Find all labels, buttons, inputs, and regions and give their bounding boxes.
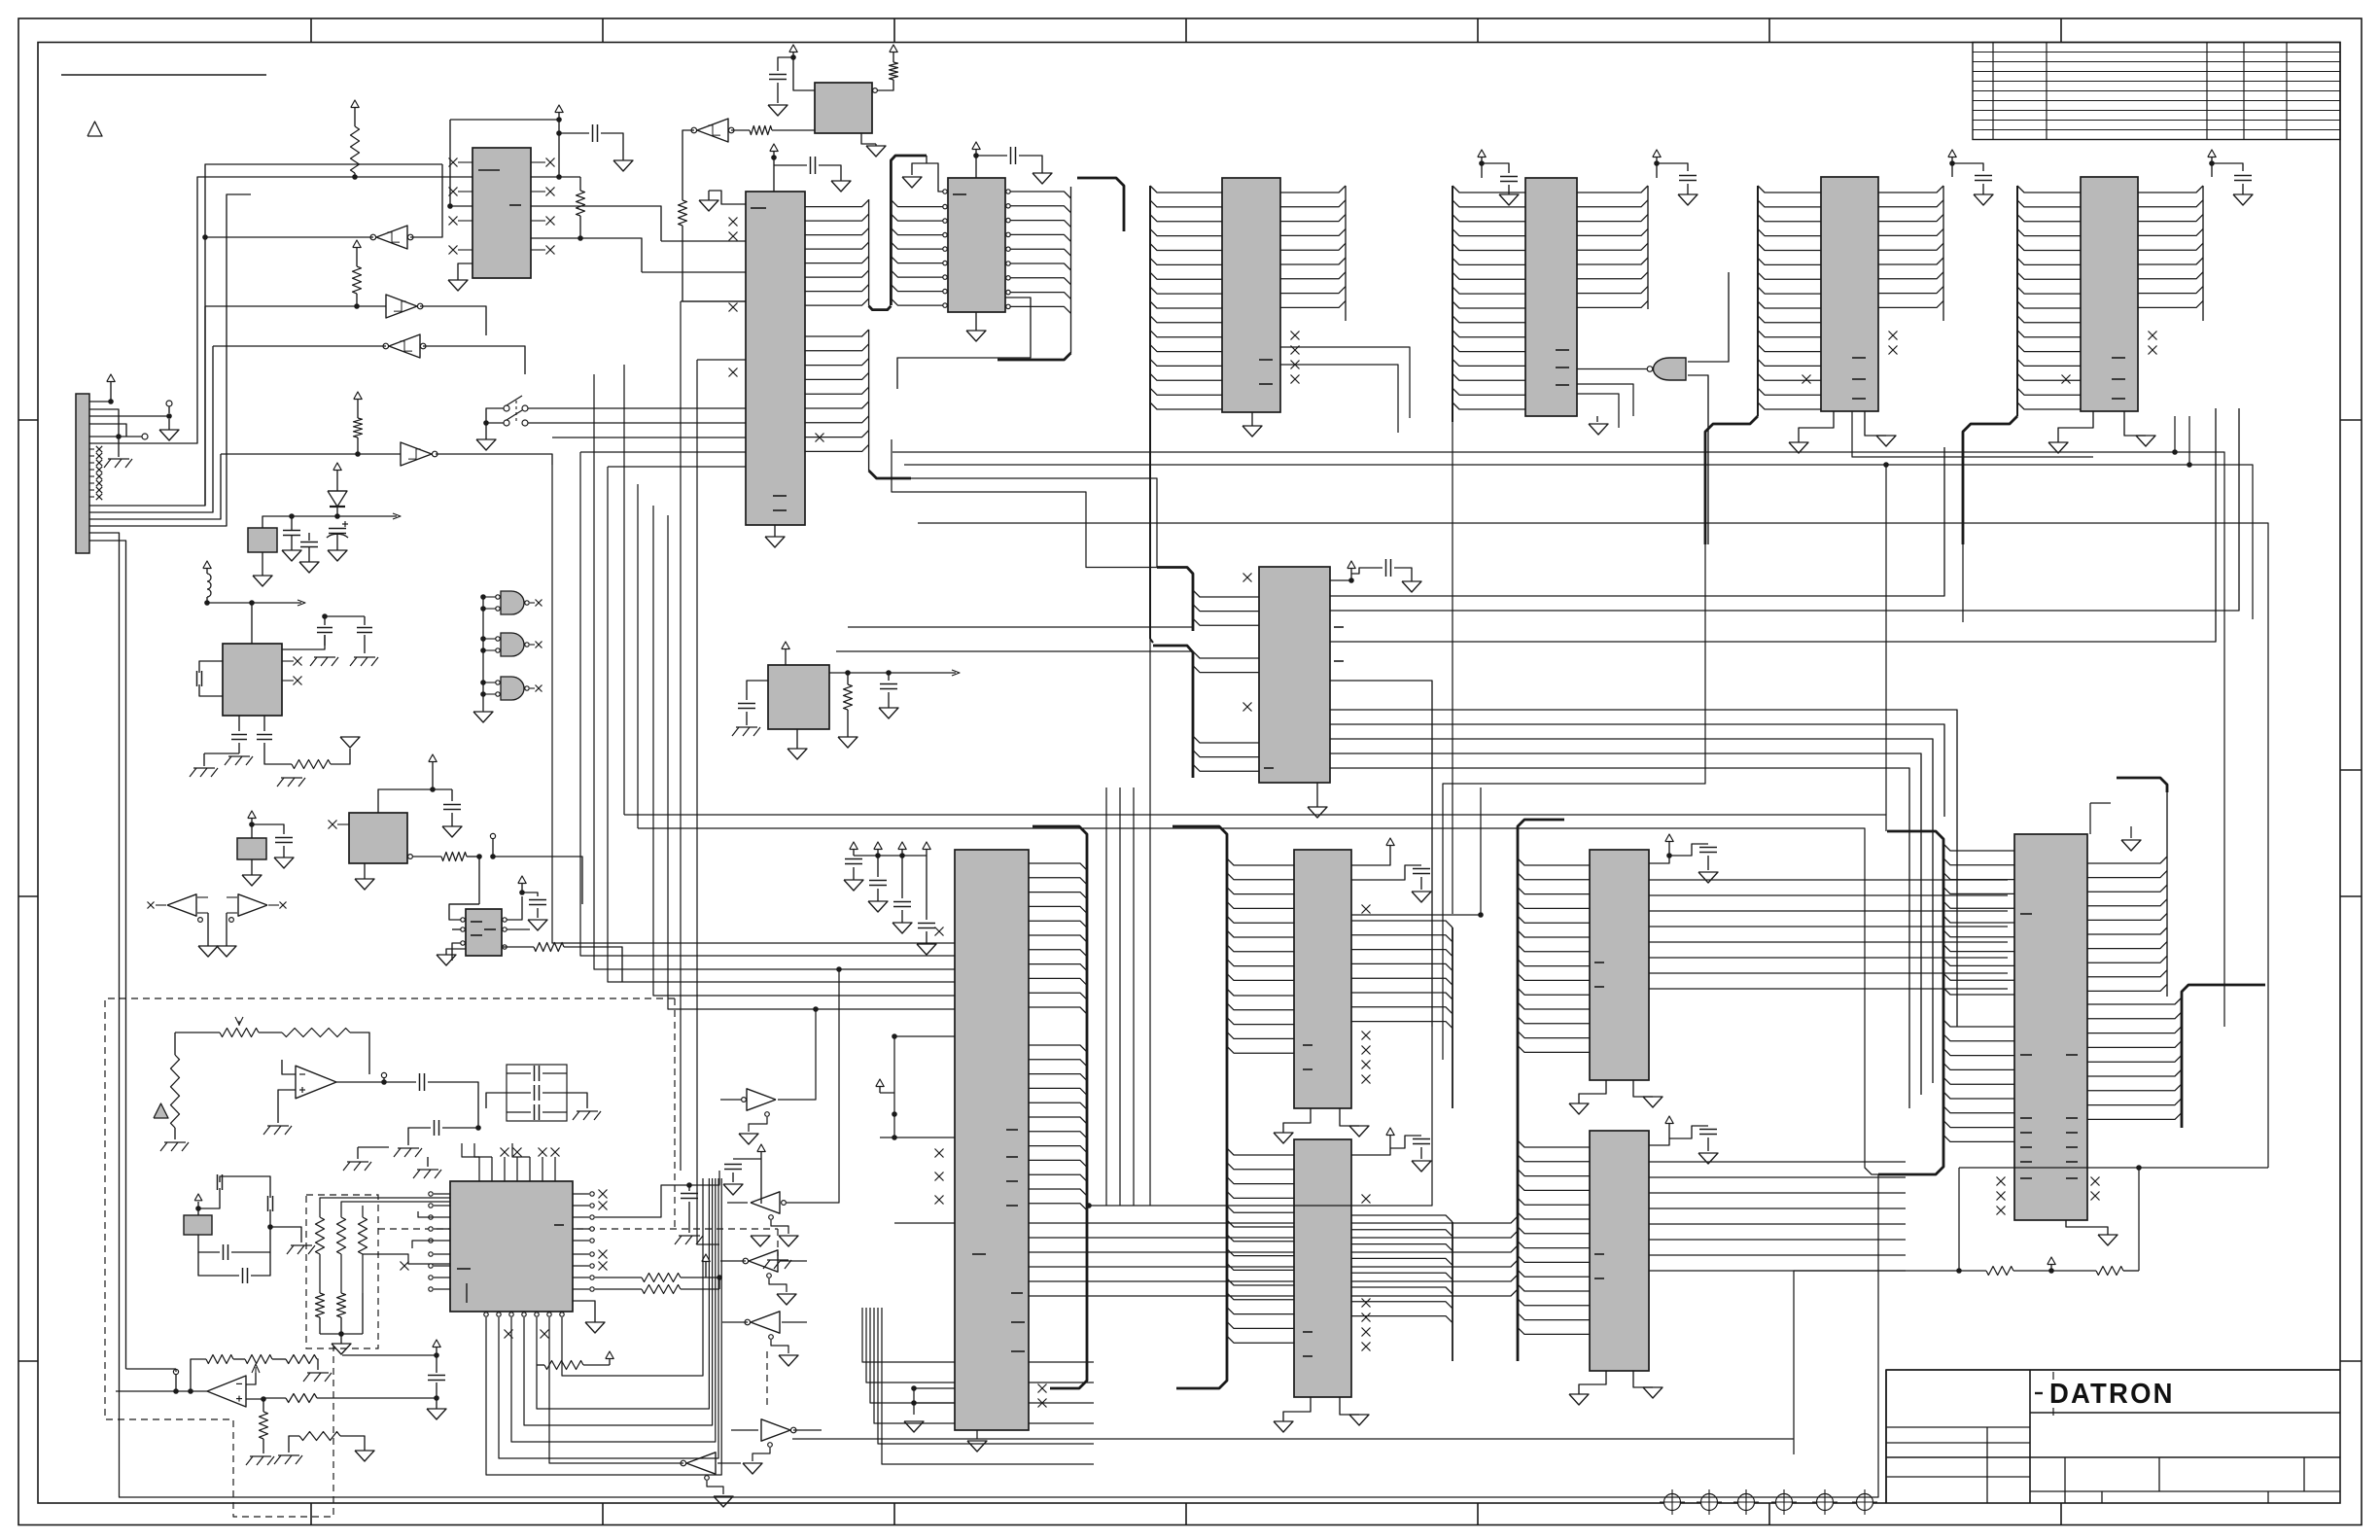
IC U24 <box>1294 1139 1351 1397</box>
A3 output arrow <box>829 672 956 674</box>
A5 output resistor R9 <box>408 855 413 859</box>
U4 right pin wire lower <box>531 238 642 272</box>
A3 gnd <box>796 729 798 749</box>
wires U4 to U8 <box>531 206 661 241</box>
A1 lower chassis <box>281 777 302 779</box>
resistor trio in dashed box <box>319 1206 321 1217</box>
U4 bottom-left ground <box>458 263 472 280</box>
U20 inputs <box>282 1060 296 1074</box>
U23 right fan to vertical <box>1351 921 1452 927</box>
wire U3b input <box>205 305 386 307</box>
J1 long wire to vertical bus 203 <box>89 177 472 443</box>
caps cluster top of hybrid <box>507 1065 567 1121</box>
resistor R4 <box>579 177 581 191</box>
U23 right wires <box>1351 852 1390 865</box>
U24 bottom gnd <box>1283 1397 1311 1421</box>
thin continuation of U11 descender <box>1962 544 1964 622</box>
chassis grounds above hybrid <box>347 1161 368 1163</box>
U13 upper-left bold bus entry <box>1157 568 1193 632</box>
capacitor C11 <box>283 530 300 532</box>
U14 power cap <box>1656 163 1658 178</box>
J1 pin wire 4 <box>89 424 126 437</box>
cap C30 <box>442 1127 478 1129</box>
wire U3d output <box>436 454 552 465</box>
U23 nc right <box>1362 1032 1371 1040</box>
dashed line through hybrid <box>378 1228 778 1230</box>
IC U7 <box>948 178 1005 312</box>
U8 right fan lower <box>805 330 869 336</box>
A3 cap C14 <box>888 673 890 681</box>
A1 bottom caps <box>238 716 240 731</box>
U25 dashes <box>1594 962 1604 963</box>
svg-text:DATRON: DATRON <box>2049 1379 2175 1410</box>
U11 power cap <box>2211 163 2213 177</box>
wire U3c output <box>213 345 386 347</box>
U21 lower resistor to chassis <box>262 1399 264 1412</box>
U7 ground below <box>975 312 977 331</box>
J1 pin wire 2 <box>89 409 119 437</box>
U10 power cap <box>1951 163 1953 177</box>
U10 bottom gnd wires <box>1799 411 1834 442</box>
long lower horizontals <box>624 815 1886 831</box>
U27 right lower bold spine <box>2182 985 2265 1128</box>
U26 right wires <box>1649 1161 1906 1163</box>
delta revision mark <box>87 122 102 136</box>
zener diode VR1 <box>333 463 341 471</box>
wire U3b output <box>420 306 486 335</box>
buffer column U30a <box>747 1089 776 1110</box>
U22 bottom left wires <box>914 1388 955 1403</box>
module A5 <box>349 813 407 863</box>
module A3 regulator <box>768 665 829 729</box>
electrolytic C12 <box>329 528 346 530</box>
U13 right wires turning down rails <box>1330 710 1957 1027</box>
A6 input wires <box>449 904 479 920</box>
U26 dashes <box>1594 1253 1604 1255</box>
U6 left power wiring <box>793 57 815 90</box>
A6 right wires <box>502 896 522 920</box>
U21 minus input to wiper <box>246 1373 256 1384</box>
IC U26 <box>1590 1131 1649 1371</box>
J1 pin to test point <box>89 415 169 417</box>
vertical bus wires center-left staircase to U22 <box>552 465 955 943</box>
IC U14 <box>1525 178 1577 416</box>
U5a output wire to resistor R10 <box>682 130 694 200</box>
U22 right fan mid <box>1029 1045 1087 1052</box>
inverter U3c <box>389 334 420 358</box>
U9 right fan <box>1280 186 1346 192</box>
U24 power cap <box>1351 1141 1390 1155</box>
U22 nc left <box>935 927 944 936</box>
IC U6 small <box>815 83 872 133</box>
buffer column U30d <box>751 1312 780 1333</box>
U27 left fan upper <box>1943 844 2014 851</box>
IC U25 <box>1590 850 1649 1080</box>
U25 power cap right <box>1649 850 1669 863</box>
U14 left spine descender <box>1452 422 1453 914</box>
U27 left spine bold <box>1878 831 1943 1174</box>
wire A5 down to A6 <box>478 857 480 904</box>
lower spine bottom bold hook <box>869 471 911 478</box>
revision table top-right <box>1973 43 2340 140</box>
right rail horizontals and verticals <box>892 452 2224 1027</box>
op-amp U21 <box>207 1376 246 1407</box>
U8 power top <box>773 157 775 192</box>
A6 power cap <box>518 876 526 884</box>
A10 right resistors <box>595 1277 642 1278</box>
resistor R3 pullup <box>354 418 363 437</box>
U11 left fan 16 <box>2017 186 2081 192</box>
thin continuation of U10 descender <box>1443 544 1705 1060</box>
U14 left fan 16 <box>1452 186 1525 192</box>
comparator pair <box>167 894 196 916</box>
resistor R20 vertical <box>171 1055 180 1128</box>
cap C31 below <box>433 1340 440 1347</box>
inverter U3b <box>386 295 417 318</box>
U9 left fan 16 <box>1150 186 1222 192</box>
voltage reg module A2 <box>248 528 277 552</box>
IC U13 central <box>1259 567 1330 783</box>
U23 left spine bold with top hook <box>1172 826 1227 1108</box>
U25 right long wires <box>1649 879 2008 881</box>
wire L1 to A1 <box>207 602 301 604</box>
cap C13 by reg <box>300 542 318 543</box>
NAND gate U12 facing left <box>1654 358 1687 380</box>
wire U3a input <box>410 206 442 237</box>
resistor R22 <box>537 1364 544 1366</box>
U14 bottom ground <box>1596 416 1598 422</box>
U9 spine descender to U13 entry <box>1149 416 1151 639</box>
U25 bottom gnd <box>1579 1080 1606 1103</box>
U22 right lower bold hook <box>1050 1220 1087 1388</box>
inductor L1 <box>203 561 211 569</box>
U13 left fan lower <box>1193 651 1259 658</box>
U4 no-connect pins <box>458 161 472 163</box>
hybrid IC A10 <box>450 1181 573 1312</box>
U7 bottom pin loop wire <box>897 297 1031 389</box>
U8 left input wires <box>552 437 746 438</box>
A1 right nc <box>282 660 294 662</box>
J1 pin with chassis gnd <box>89 436 119 437</box>
switch S1 <box>504 405 509 411</box>
ground at test point <box>168 419 170 430</box>
small module A4 <box>237 838 266 859</box>
title block <box>1886 1370 2340 1503</box>
wire into U21 from left rail <box>126 1368 177 1370</box>
staircase wires from U8 lower bus to U13 <box>911 478 1157 567</box>
inverter U3a <box>376 226 407 249</box>
U10 spine descender <box>1705 416 1758 544</box>
alignment target circles bottom <box>1664 1494 1681 1511</box>
U13 nc left <box>1243 574 1252 582</box>
U9 left spine <box>1149 186 1151 416</box>
U8 gnd step left <box>709 191 746 204</box>
J1 pin wire with power arrow <box>89 401 111 402</box>
U10 nc and dashes <box>1889 332 1898 340</box>
A5 bottom gnd <box>364 863 366 879</box>
power cap for buffers <box>757 1144 765 1152</box>
bottom right long wires <box>1089 1027 1432 1206</box>
switch output wires to U8 <box>528 407 746 409</box>
U7 right fan <box>1005 192 1071 198</box>
A10 bottom ground <box>573 1301 595 1322</box>
LED gate indicators <box>482 595 484 712</box>
delta mark 2 <box>154 1103 168 1118</box>
U13 right wires long <box>1330 447 1944 596</box>
U21 plus input chain <box>246 1398 263 1400</box>
vertical pair right of LEDs <box>680 494 682 1171</box>
U27 left fan lower <box>1943 1020 2014 1027</box>
IC U4 <box>472 148 531 278</box>
resistor R10 vertical <box>679 200 687 226</box>
A1 right caps to chassis <box>282 635 325 649</box>
resistor R1 pullup <box>351 126 360 173</box>
border zone ticks left and right <box>18 419 38 421</box>
U9 power cap <box>1481 163 1483 178</box>
A10 right pins <box>573 1193 589 1195</box>
J1 bottom wires down the page <box>89 533 120 1391</box>
U11 bottom gnd wires <box>2058 411 2093 442</box>
U24 left fan <box>1227 1148 1294 1155</box>
A3 left wires <box>747 681 768 700</box>
U10 right fan <box>1878 186 1943 192</box>
resistor R2 pullup <box>353 266 362 294</box>
U21 feedback resistor chain <box>191 1359 206 1391</box>
power caps cluster <box>850 842 857 850</box>
U10 bottom wire down <box>1852 411 2093 457</box>
U13 left fan upper <box>1193 590 1259 597</box>
power arrow A3 <box>782 642 789 649</box>
wire zener node left to cap C11 <box>262 516 337 528</box>
U27 bottom resistor network <box>1958 1168 1960 1271</box>
U22 right fan upper <box>1029 863 1087 870</box>
IC U10 <box>1821 177 1878 411</box>
U7 left fan rows <box>891 200 944 207</box>
U9 no-connects right <box>1291 332 1300 340</box>
bold bus hook above U7 right <box>1077 178 1124 231</box>
U22 right fan upper bold hook <box>1032 826 1087 1019</box>
bottom horizontal long wire <box>288 1174 1878 1497</box>
U9 right lower wires <box>1280 347 1410 418</box>
IC U22 tall <box>955 850 1029 1430</box>
U27 right thin spine top bold hook <box>2117 778 2167 792</box>
U22 bottom ground <box>976 1430 978 1439</box>
right spine of U7 with bottom hook <box>1070 187 1072 353</box>
U10 left fan 16 <box>1758 186 1821 192</box>
resistor R6 at U6 <box>890 45 897 52</box>
thin verticals mid page <box>1105 787 1107 1206</box>
wire from above to U23 pin <box>1480 787 1482 915</box>
A5 top cap <box>378 768 433 813</box>
wire U3a output <box>205 236 373 238</box>
U4 right pin to R4 <box>531 176 580 178</box>
buffer column U30b <box>751 1192 780 1213</box>
wire zener node to arrow <box>337 515 397 517</box>
U8 left wires upper <box>661 240 746 242</box>
wires resistor trio to hybrid <box>320 1198 450 1206</box>
IC U11 <box>2081 177 2138 411</box>
long mid horizontals left of U13 <box>848 626 1193 628</box>
cap C1 at U4 <box>558 120 560 133</box>
U7 pin1 step and gnd <box>926 156 927 163</box>
border zone ticks top <box>310 18 312 43</box>
U8 no-connects <box>729 218 738 227</box>
U27 bottom ground <box>2066 1220 2108 1235</box>
A10 bottom pins wrap up right <box>484 1312 488 1316</box>
A1 left caps <box>199 661 223 673</box>
U14 pin dashes <box>1556 349 1569 351</box>
U27 nc and dashes <box>1997 1177 2006 1186</box>
title underline top-left <box>61 74 266 76</box>
U25 left spine bold with top hook <box>1518 820 1564 1080</box>
U24 nc right <box>1362 1299 1371 1308</box>
U27 right fan upper to thin spine <box>2087 857 2167 863</box>
U25 left fan <box>1518 858 1590 865</box>
buffer column U30e <box>761 1419 790 1441</box>
U8 bottom ground <box>774 525 776 537</box>
U23 left fan <box>1227 858 1294 865</box>
border zone ticks bottom <box>310 1503 312 1525</box>
U13 lower-left bold bus entry <box>1153 646 1193 778</box>
A6 gnd <box>446 949 466 955</box>
U11 right fan <box>2138 186 2203 192</box>
U13 power cap right <box>1330 579 1351 581</box>
bottom bus rows to U22 hook <box>862 1308 1094 1362</box>
bold U-turn <box>869 306 892 310</box>
A5 nc left <box>337 823 349 825</box>
wire resistors to lower left <box>1794 1271 1959 1454</box>
cap C2 at U6 <box>778 57 793 71</box>
U14 right fan <box>1577 186 1648 192</box>
U22 right fan exit rows <box>1029 1216 1518 1223</box>
pot R21 top <box>220 1029 259 1037</box>
U8 right fan upper to thin spine <box>805 200 869 207</box>
resistor R5 <box>750 126 772 135</box>
U9 bottom ground <box>1251 412 1253 426</box>
dashed shield box <box>105 998 675 1517</box>
op-amp U20 <box>296 1066 336 1099</box>
buffer column U30c <box>749 1250 778 1272</box>
xtal lower cap <box>242 1268 244 1283</box>
bold spine feeding U7 <box>891 156 927 305</box>
U27 right fan lower <box>2087 997 2182 1004</box>
U13 upper-left feeder wire <box>892 439 1157 568</box>
IC U8 tall <box>746 192 805 525</box>
dashed boundary segment lower <box>766 1351 768 1405</box>
J1 lower pin wires to vertical bus <box>89 164 442 506</box>
U26 bottom gnd <box>1579 1371 1606 1394</box>
R24 horizontal low <box>299 1432 340 1441</box>
A10 left pins <box>434 1193 450 1195</box>
IC U9 tall <box>1222 178 1280 412</box>
NAND input wires <box>1688 272 1729 362</box>
U24 right fan <box>1351 1215 1452 1222</box>
U27 top left wire loop and gnd <box>2089 803 2091 834</box>
U22 left wire dots <box>892 1033 897 1039</box>
U20 output cap <box>384 1081 416 1083</box>
pot wiper arrow <box>252 1364 260 1373</box>
IC U27 tall right <box>2014 834 2087 1220</box>
crystal Y1 <box>184 1215 212 1235</box>
A6 resistor <box>502 946 534 948</box>
connector J1 <box>76 394 89 553</box>
J1 no-connect pins <box>89 448 94 450</box>
dashed resistor box <box>306 1195 378 1348</box>
oscillator module A1 <box>223 644 282 716</box>
inverter U5a top <box>697 119 728 142</box>
U7 power wiring <box>975 156 977 178</box>
A10 top pins <box>478 1157 480 1181</box>
buffer column U30f <box>686 1452 716 1474</box>
A1 resistor R8 <box>264 753 292 764</box>
wire across U27 bottom <box>1959 1167 2268 1169</box>
A10 right wiring to cap <box>595 1185 689 1217</box>
U26 power cap <box>1649 1132 1669 1145</box>
U6 bottom ground <box>861 133 876 144</box>
U13 pin dashes <box>1334 626 1344 628</box>
wire U3c input <box>423 346 525 374</box>
A3 resistor R7 <box>847 673 849 684</box>
U4 power node wiring <box>450 119 559 121</box>
IC U23 <box>1294 850 1351 1108</box>
inverter U3d <box>401 442 432 466</box>
NAND output wire to U14 <box>1577 368 1647 370</box>
U26 left fan <box>1518 1140 1590 1147</box>
U23 bottom gnd <box>1283 1108 1311 1133</box>
U11 nc and dashes <box>2149 332 2157 340</box>
U11 spine descender <box>1963 416 2017 544</box>
dual gate module A6 <box>466 909 502 956</box>
U13 bottom ground <box>1316 783 1318 807</box>
wire U3d input <box>221 453 401 455</box>
U14 bottom wires <box>1577 384 1633 416</box>
